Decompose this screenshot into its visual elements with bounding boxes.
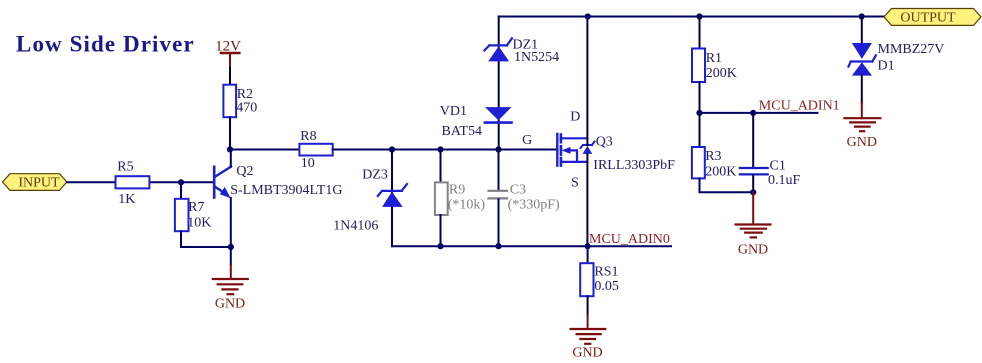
- svg-text:MMBZ27V: MMBZ27V: [878, 42, 945, 57]
- wire R7 bottom to emitter node: [181, 231, 231, 247]
- svg-text:INPUT: INPUT: [18, 176, 60, 191]
- wire C3 branch top: [498, 150, 500, 190]
- wire net MCU_ADIN0 rail: [392, 245, 671, 247]
- svg-text:S-LMBT3904LT1G: S-LMBT3904LT1G: [230, 183, 342, 198]
- node junction R1 top: [696, 13, 702, 19]
- wire R9 branch bottom: [440, 215, 442, 246]
- MOSFET Q3: [557, 110, 675, 191]
- wire column DZ1/VD1: [498, 17, 500, 150]
- svg-text:Q3: Q3: [596, 134, 613, 149]
- svg-text:GND: GND: [847, 135, 877, 150]
- wire net MCU_ADIN1: [700, 112, 818, 114]
- svg-text:200K: 200K: [705, 165, 736, 180]
- ground GND under C1: [736, 225, 771, 258]
- svg-text:IRLL3303PbF: IRLL3303PbF: [593, 158, 675, 173]
- node junction emitter/R7: [228, 244, 234, 250]
- resistor R9 (not fitted, gray): [435, 182, 485, 215]
- wire R3 bottom to C1 bottom: [700, 178, 754, 192]
- capacitor C1: [740, 158, 801, 187]
- svg-text:R7: R7: [188, 200, 204, 215]
- svg-text:Q2: Q2: [236, 164, 253, 179]
- ground GND under Q2: [213, 265, 248, 312]
- resistor R2: [223, 85, 257, 118]
- svg-text:MCU_ADIN1: MCU_ADIN1: [759, 99, 840, 114]
- svg-text:470: 470: [236, 100, 257, 115]
- wire R5 to Q2 base: [149, 181, 213, 183]
- wire D1 branch: [861, 17, 863, 44]
- wire C1 branch top: [752, 113, 754, 167]
- node junction MCU_ADIN1/R3: [696, 110, 702, 116]
- svg-text:0.05: 0.05: [594, 279, 619, 294]
- node junction R2/R8/collector: [227, 146, 233, 152]
- node junction C1/GND: [750, 189, 756, 195]
- wire INPUT to R5: [67, 181, 116, 183]
- svg-text:R9: R9: [449, 182, 465, 197]
- svg-text:GND: GND: [572, 345, 602, 360]
- title text: [16, 32, 195, 57]
- svg-text:(*330pF): (*330pF): [508, 197, 560, 212]
- svg-text:(*10k): (*10k): [448, 197, 486, 212]
- resistor R5: [116, 159, 150, 207]
- port INPUT: [3, 174, 67, 191]
- svg-text:RS1: RS1: [594, 264, 618, 279]
- svg-text:R3: R3: [705, 149, 721, 164]
- node junction R7/base: [178, 179, 184, 185]
- wire R1 to MCU_ADIN1 node: [699, 82, 701, 113]
- svg-text:1N4106: 1N4106: [333, 218, 378, 233]
- wire R1 branch: [699, 17, 701, 49]
- wire RS1 to ground: [587, 296, 589, 329]
- svg-text:D: D: [570, 110, 580, 125]
- wire C1 branch bottom: [752, 176, 754, 193]
- resistor R1: [692, 49, 737, 83]
- node junction DZ3 top: [389, 146, 395, 152]
- wire R8 to Q3 gate: [333, 149, 557, 151]
- wire R9 branch top: [440, 150, 442, 183]
- diode VD1 BAT54: [440, 104, 512, 139]
- svg-text:OUTPUT: OUTPUT: [900, 10, 956, 25]
- diode D1 MMBZ27V dual zener: [849, 42, 945, 75]
- node junction R9 top: [437, 146, 443, 152]
- capacitor C3 (not fitted, gray): [489, 182, 561, 212]
- ground GND under RS1: [571, 329, 606, 360]
- wire junction to R7: [180, 182, 182, 199]
- wire 12V to R2: [229, 68, 231, 85]
- wire Q2 collector up: [230, 150, 232, 167]
- node junction R9 bottom: [437, 243, 443, 249]
- port OUTPUT: [884, 9, 981, 26]
- svg-text:10: 10: [301, 156, 315, 171]
- svg-text:C1: C1: [770, 158, 786, 173]
- transistor Q2: [214, 164, 342, 199]
- svg-text:R8: R8: [300, 129, 316, 144]
- power 12V: [215, 38, 241, 68]
- zener diode DZ1: [484, 38, 559, 66]
- wire gate rail (junction to R8): [230, 149, 299, 151]
- svg-text:G: G: [522, 133, 532, 148]
- node junction C3 bottom: [495, 243, 501, 249]
- svg-text:S: S: [571, 175, 579, 190]
- wire Q3 source to MCU_ADIN0 rail: [586, 154, 588, 246]
- svg-text:1N5254: 1N5254: [514, 50, 559, 65]
- svg-text:C3: C3: [510, 182, 526, 197]
- node junction drain/top rail: [585, 13, 591, 19]
- wire Q3 drain: [586, 17, 588, 146]
- svg-text:MCU_ADIN0: MCU_ADIN0: [589, 232, 670, 247]
- wire DZ3 branch: [391, 150, 393, 247]
- wire MCU_ADIN1 to R3: [699, 113, 701, 147]
- svg-text:R5: R5: [117, 159, 133, 174]
- wire D1 to ground: [861, 76, 863, 119]
- svg-text:BAT54: BAT54: [442, 124, 482, 139]
- node junction Q3 source / RS1: [585, 243, 591, 249]
- zener diode DZ3: [333, 167, 407, 233]
- svg-text:GND: GND: [738, 242, 768, 257]
- node junction D1 top: [859, 13, 865, 19]
- wire top rail: [499, 16, 884, 18]
- svg-text:10K: 10K: [187, 216, 211, 231]
- svg-text:DZ3: DZ3: [362, 167, 388, 182]
- wire R2 to collector junction: [229, 117, 231, 149]
- resistor R7: [175, 199, 211, 231]
- svg-text:D1: D1: [878, 58, 895, 73]
- node junction C1 top: [750, 110, 756, 116]
- resistor R3: [692, 147, 736, 180]
- wire rail to RS1: [587, 246, 589, 263]
- svg-text:1K: 1K: [118, 192, 135, 207]
- resistor RS1: [580, 263, 619, 296]
- svg-text:R1: R1: [706, 51, 722, 66]
- svg-text:200K: 200K: [706, 66, 737, 81]
- resistor R8: [299, 129, 332, 171]
- wire Q2 emitter down: [230, 198, 232, 265]
- svg-text:0.1uF: 0.1uF: [768, 173, 801, 188]
- wire to ground under C1: [752, 192, 754, 224]
- node junction column/C3: [495, 146, 501, 152]
- svg-text:Low Side Driver: Low Side Driver: [16, 32, 195, 57]
- ground GND under D1: [844, 118, 880, 150]
- wire C3 branch bottom: [498, 199, 500, 246]
- svg-text:GND: GND: [215, 297, 245, 312]
- svg-text:VD1: VD1: [440, 104, 467, 119]
